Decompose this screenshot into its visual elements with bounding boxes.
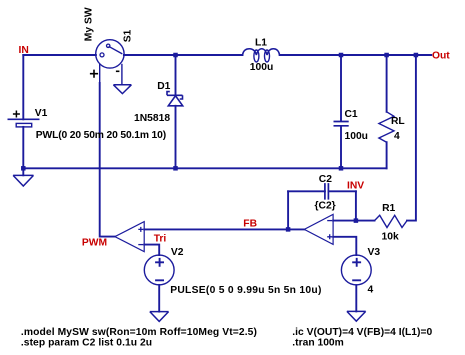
svg-text:{C2}: {C2}	[315, 200, 336, 211]
junction at Out column	[414, 53, 419, 58]
op-amp U2 (error amp)	[304, 214, 333, 244]
wire V1 bottom lead	[22, 127, 24, 168]
svg-text:D1: D1	[157, 81, 170, 92]
wire ground stub at rail	[22, 168, 24, 175]
wire op-amp U1 minus to V2 (Tri)	[144, 245, 159, 256]
wire V2 bottom lead	[158, 285, 160, 312]
svg-text:.tran 100m: .tran 100m	[292, 338, 344, 349]
wire C2 left	[288, 190, 325, 192]
ground at switch minus control	[113, 85, 131, 94]
wire L1 to Out	[280, 54, 432, 56]
svg-text:V1: V1	[35, 108, 48, 119]
svg-text:10k: 10k	[382, 231, 399, 242]
svg-text:4: 4	[394, 131, 400, 142]
wire V3 bottom lead	[355, 285, 357, 311]
svg-text:FB: FB	[243, 219, 257, 230]
voltage source V2	[144, 255, 174, 285]
wire switch control to PWM	[100, 83, 115, 237]
svg-text:100u: 100u	[345, 131, 368, 142]
wire RL bottom lead	[386, 142, 388, 168]
wire FB horizontal	[144, 228, 304, 230]
svg-text:My SW: My SW	[83, 7, 94, 41]
svg-text:100u: 100u	[250, 62, 273, 73]
op-amp U1 (PWM comparator)	[115, 222, 144, 252]
svg-text:Tri: Tri	[154, 234, 167, 245]
ground at V3	[347, 311, 366, 321]
wire D1 bottom lead	[175, 106, 177, 169]
svg-text:S1: S1	[123, 29, 134, 42]
switch S1 body	[96, 40, 124, 68]
svg-text:INV: INV	[347, 181, 364, 192]
svg-text:1N5818: 1N5818	[134, 113, 170, 124]
svg-text:.model MySW sw(Ron=10m Roff=: .model MySW sw(Ron=10m Roff=10Meg Vt=2.5…	[21, 327, 257, 338]
svg-text:R1: R1	[382, 203, 395, 214]
wire ground rail	[23, 167, 386, 169]
wire INV vertical	[355, 191, 357, 220]
wire Out to R1 right lead	[407, 55, 416, 221]
svg-text:IN: IN	[19, 45, 29, 56]
svg-text:PWL(0 20 50m 20 50.1m 10): PWL(0 20 50m 20 50.1m 10)	[36, 130, 166, 141]
svg-text:.step param C2 list 0.1u 2u: .step param C2 list 0.1u 2u	[21, 337, 152, 348]
ground at V1 rail	[13, 175, 33, 186]
switch control plus sign	[90, 70, 98, 78]
switch control minus sign	[116, 70, 120, 72]
junction at INV node	[354, 218, 359, 223]
svg-text:PWM: PWM	[82, 238, 107, 249]
svg-text:L1: L1	[255, 37, 267, 48]
diode D1 (1N5818 schottky)	[168, 96, 182, 106]
svg-text:C1: C1	[345, 109, 358, 120]
svg-text:RL: RL	[391, 116, 405, 127]
wire R1 left lead / INV to op-amp minus	[333, 220, 374, 222]
battery V1	[8, 118, 40, 120]
wire C1 bottom lead	[340, 126, 342, 168]
junction at D1 top	[173, 53, 178, 58]
resistor RL	[379, 112, 394, 142]
inductor L1	[243, 49, 280, 55]
wire C1 top lead	[340, 55, 342, 121]
ground at V2	[150, 312, 169, 322]
wire FB vertical	[287, 191, 289, 229]
junction at D1 bottom	[173, 166, 178, 171]
svg-text:C2: C2	[319, 174, 332, 185]
resistor R1	[375, 215, 408, 227]
wire switch to L1	[124, 54, 243, 56]
capacitor C2	[325, 183, 329, 200]
pin S1 plus control lead	[99, 64, 101, 83]
capacitor C1	[334, 122, 349, 126]
junction at RL top	[384, 53, 389, 58]
junction at C1 bottom	[339, 166, 344, 171]
svg-text:V2: V2	[171, 247, 184, 258]
svg-text:V3: V3	[368, 247, 381, 258]
junction at V1 ground	[21, 166, 26, 171]
svg-text:PULSE(0 5 0 9.99u 5n 5n 10u): PULSE(0 5 0 9.99u 5n 5n 10u)	[170, 285, 321, 296]
junction at FB node	[286, 227, 291, 232]
wire IN to switch	[23, 54, 96, 56]
pin S1 minus control lead	[121, 65, 123, 85]
voltage source V3	[341, 255, 371, 285]
wire C2 right	[329, 190, 356, 192]
wire D1 top lead	[175, 55, 177, 95]
svg-text:Out: Out	[432, 51, 450, 62]
svg-text:.ic V(OUT)=4 V(FB)=4 I(L1)=0: .ic V(OUT)=4 V(FB)=4 I(L1)=0	[292, 327, 432, 338]
junction at C1 top	[339, 53, 344, 58]
wire RL top lead	[386, 55, 388, 112]
svg-text:4: 4	[368, 284, 374, 295]
wire op-amp U2 plus to V3	[333, 237, 356, 255]
wire V1 top lead	[22, 55, 24, 119]
